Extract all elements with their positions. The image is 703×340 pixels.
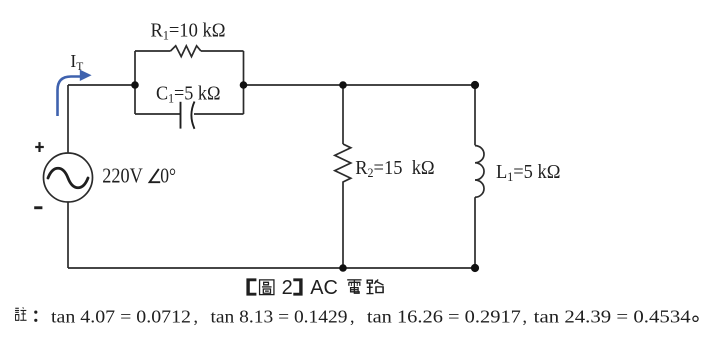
svg-text:R2=15 kΩ: R2=15 kΩ	[355, 157, 435, 180]
node A (box left)	[131, 81, 139, 89]
arrowhead IT	[80, 70, 92, 81]
plus polarity mark	[35, 146, 44, 148]
caption: right lenticular bracket	[293, 278, 302, 295]
wire: R2 branch lower	[342, 188, 344, 268]
svg-text:tan 4.07 = 0.0712: tan 4.07 = 0.0712	[51, 306, 191, 326]
svg-text:L1=5 kΩ: L1=5 kΩ	[496, 161, 561, 184]
wire: left riser from source top to top rail	[67, 85, 69, 153]
note: glyph ZHU (note)	[15, 307, 27, 320]
wire: box top edge right of R1	[201, 50, 244, 52]
svg-text:,: ,	[523, 306, 528, 326]
wire: L1 branch lower	[474, 197, 476, 268]
svg-text:0°: 0°	[160, 163, 176, 187]
svg-text:C1=5 kΩ: C1=5 kΩ	[156, 83, 221, 106]
capacitor C1 right curved plate	[191, 102, 194, 129]
caption: glyph TU (figure)	[260, 280, 274, 295]
node B (box right)	[240, 81, 248, 89]
capacitor C1 left plate	[180, 102, 182, 129]
wire: bottom rail	[68, 267, 475, 269]
node D (L1 top)	[471, 81, 479, 89]
node F (L1 bottom)	[471, 264, 479, 272]
caption: glyph LU (road)	[366, 280, 383, 294]
caption: left lenticular bracket	[246, 278, 256, 295]
current arrow IT (blue)	[58, 77, 82, 117]
note: ideographic full stop	[693, 316, 698, 321]
AC source V1 circle	[44, 153, 93, 202]
svg-text:220V: 220V	[102, 163, 143, 187]
wire: box top edge left of R1	[135, 50, 171, 52]
node E (R2 bottom)	[339, 264, 347, 272]
svg-text:tan 8.13 = 0.1429: tan 8.13 = 0.1429	[211, 306, 348, 326]
wire: R2 branch upper	[342, 85, 344, 144]
wire: RC box left edge	[134, 51, 136, 114]
svg-text:2: 2	[282, 277, 293, 299]
svg-text:,: ,	[194, 306, 199, 326]
svg-text:R1=10 kΩ: R1=10 kΩ	[151, 19, 226, 42]
svg-text:IT: IT	[70, 51, 83, 73]
svg-text:AC: AC	[310, 277, 338, 299]
AC source sine wave	[48, 168, 88, 188]
wire: top-left horizontal to RC box	[68, 84, 135, 86]
resistor R1 zigzag	[171, 46, 201, 57]
svg-text:tan 24.39 = 0.4534: tan 24.39 = 0.4534	[534, 306, 691, 326]
svg-text:,: ,	[350, 306, 355, 326]
note: fullwidth colon	[34, 311, 37, 314]
node C (R2 top)	[339, 81, 347, 89]
wire: left riser from source bottom to bottom rail	[67, 202, 69, 268]
resistor R2 zigzag	[335, 144, 351, 188]
minus polarity mark	[34, 206, 42, 209]
wire: L1 branch upper	[474, 85, 476, 145]
caption: glyph DIAN (electric)	[347, 280, 361, 293]
wire: box bottom edge right of C1	[194, 113, 244, 115]
wire: box bottom edge left of C1	[135, 113, 181, 115]
wire: RC box right edge	[243, 51, 245, 114]
wire: top rail from box to right branch	[244, 84, 476, 86]
angle symbol	[150, 169, 161, 182]
inductor L1 coil	[475, 146, 484, 198]
svg-text:tan 16.26 = 0.2917: tan 16.26 = 0.2917	[367, 306, 521, 326]
